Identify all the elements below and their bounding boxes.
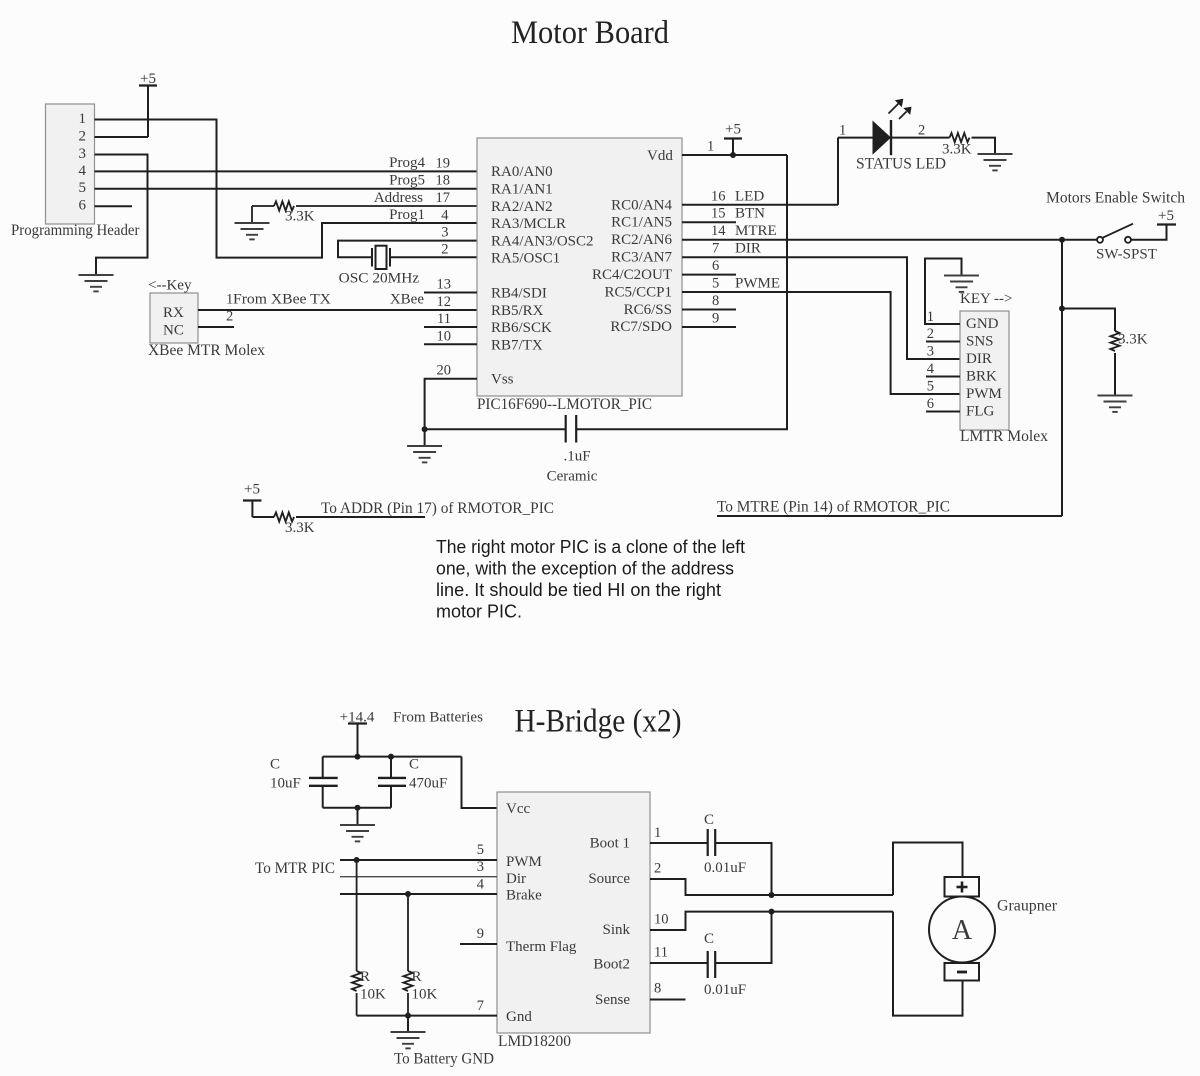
svg-text:1: 1	[707, 139, 714, 155]
wire top rail	[323, 756, 462, 758]
wire Vss to bypass cap and ground	[425, 379, 566, 430]
wire molex pin4 stub	[926, 376, 960, 378]
svg-text:<--Key: <--Key	[148, 278, 192, 294]
svg-text:Vcc: Vcc	[506, 801, 530, 817]
junction battery gnd node	[405, 1013, 411, 1019]
capacitor C 10uF	[270, 757, 338, 808]
svg-text:5: 5	[927, 379, 934, 395]
svg-text:To MTRE (Pin 14) of RMOTOR_PI: To MTRE (Pin 14) of RMOTOR_PIC	[717, 499, 950, 516]
IC U2 LMD18200	[497, 792, 650, 1050]
svg-text:Brake: Brake	[506, 888, 542, 904]
note text	[436, 537, 745, 622]
wire Boot2 to cap	[650, 962, 708, 964]
svg-text:6: 6	[79, 198, 87, 214]
svg-text:RB5/RX: RB5/RX	[491, 303, 544, 319]
wire header pin3 to ground	[95, 155, 148, 276]
ground (LMTR pin1)	[944, 276, 979, 292]
svg-text:Vss: Vss	[491, 372, 514, 388]
svg-text:11: 11	[654, 945, 668, 961]
svg-text:8: 8	[712, 293, 719, 309]
svg-text:RA3/MCLR: RA3/MCLR	[491, 216, 566, 232]
svg-text:PWME: PWME	[735, 276, 780, 292]
power +5 (ADDR pull-up)	[243, 482, 262, 518]
svg-text:470uF: 470uF	[409, 776, 447, 792]
resistor 3.3K (LED)	[942, 133, 972, 158]
svg-text:16: 16	[711, 188, 726, 204]
svg-text:1: 1	[79, 111, 87, 127]
svg-text:PWM: PWM	[966, 386, 1002, 402]
junction PWM pull node	[354, 857, 360, 863]
svg-text:C: C	[270, 757, 280, 773]
wire RB4/SDI stub	[424, 292, 477, 294]
svg-text:SNS: SNS	[966, 334, 994, 350]
power +5 (Vdd)	[724, 122, 742, 155]
svg-text:XBee: XBee	[390, 291, 424, 307]
power +5 (programming header)	[139, 71, 157, 137]
svg-text:RX: RX	[163, 305, 184, 321]
svg-text:+5: +5	[725, 122, 741, 138]
svg-text:R: R	[412, 969, 422, 985]
svg-text:Therm Flag: Therm Flag	[506, 939, 577, 955]
wire molex pin6 stub	[926, 411, 960, 413]
junction MTRE node	[1059, 237, 1065, 243]
crystal OSC 20MHz	[338, 241, 477, 287]
junction Brake pull node	[405, 891, 411, 897]
svg-text:0.01uF: 0.01uF	[704, 982, 746, 998]
svg-text:5: 5	[477, 842, 484, 858]
svg-text:3.3K: 3.3K	[285, 209, 315, 225]
svg-text:OSC 20MHz: OSC 20MHz	[339, 271, 420, 287]
svg-text:DIR: DIR	[735, 241, 761, 257]
svg-text:To MTR PIC: To MTR PIC	[255, 860, 335, 877]
svg-text:RC5/CCP1: RC5/CCP1	[604, 285, 672, 301]
wire header pin1 to RA3/MCLR (Prog1)	[95, 120, 478, 258]
wire to battery ground	[407, 1016, 409, 1032]
svg-text:+5: +5	[1158, 208, 1174, 224]
svg-text:5: 5	[79, 180, 87, 196]
wire Vdd to +5	[682, 154, 787, 156]
svg-text:Motors Enable Switch: Motors Enable Switch	[1046, 190, 1185, 207]
wire Brake input	[340, 893, 497, 895]
svg-text:LED: LED	[735, 188, 764, 204]
junction Source node	[769, 892, 775, 898]
svg-text:Vdd: Vdd	[647, 148, 673, 164]
wire RC4/C2OUT stub	[682, 274, 736, 276]
ground (address pull-down)	[235, 223, 270, 239]
svg-text:MTRE: MTRE	[735, 223, 777, 239]
svg-text:Dir: Dir	[506, 871, 526, 887]
svg-text:Motor Board: Motor Board	[511, 15, 669, 51]
svg-text:0.01uF: 0.01uF	[704, 860, 746, 876]
svg-text:motor PIC.: motor PIC.	[436, 602, 522, 622]
motor M1 Graupner	[929, 877, 1058, 981]
svg-text:RC4/C2OUT: RC4/C2OUT	[592, 267, 672, 283]
svg-text:NC: NC	[163, 323, 184, 339]
svg-text:10uF: 10uF	[270, 776, 301, 792]
wire Dir input	[340, 876, 497, 878]
svg-text:10K: 10K	[360, 987, 386, 1003]
capacitor C 470uF	[378, 757, 447, 808]
svg-text:2: 2	[79, 128, 87, 144]
svg-text:3: 3	[79, 146, 87, 162]
junction 470uF node	[388, 754, 394, 760]
svg-text:To Battery GND: To Battery GND	[394, 1051, 494, 1068]
svg-text:C: C	[704, 931, 714, 947]
svg-text:Boot2: Boot2	[593, 957, 630, 973]
wire header pin2 to +5	[95, 136, 149, 138]
svg-text:19: 19	[436, 155, 451, 171]
svg-text:STATUS LED: STATUS LED	[856, 155, 946, 172]
svg-text:Prog1: Prog1	[389, 207, 425, 223]
junction +14.4 node	[355, 754, 361, 760]
svg-text:8: 8	[654, 981, 661, 997]
wire cap to Source node	[715, 843, 771, 895]
svg-text:12: 12	[437, 294, 452, 310]
svg-text:4: 4	[927, 361, 935, 377]
svg-text:SW-SPST: SW-SPST	[1096, 247, 1157, 263]
switch SW-SPST	[1096, 224, 1157, 263]
svg-text:11: 11	[437, 311, 451, 327]
capacitor C 0.01uF (Boot2)	[704, 931, 746, 998]
svg-text:14: 14	[711, 223, 726, 239]
wire to ADDR of RMOTOR_PIC	[296, 516, 425, 518]
svg-text:7: 7	[712, 241, 719, 257]
ground (header pin3)	[79, 275, 114, 291]
svg-text:3: 3	[927, 344, 934, 360]
wire XBee pin2 stub	[198, 326, 234, 328]
wire molex pin1 GND to ground	[925, 259, 962, 325]
svg-text:9: 9	[712, 310, 719, 326]
svg-text:H-Bridge (x2): H-Bridge (x2)	[515, 704, 682, 740]
ground (Vss)	[407, 446, 442, 462]
svg-text:+5: +5	[244, 482, 260, 498]
wire MTRE to pull resistor	[1062, 309, 1115, 332]
svg-text:15: 15	[711, 206, 726, 222]
svg-text:3: 3	[477, 859, 484, 875]
svg-text:1: 1	[927, 309, 934, 325]
svg-text:3.3K: 3.3K	[1118, 332, 1148, 348]
svg-text:10: 10	[654, 912, 669, 928]
power +5 (switch)	[1157, 208, 1176, 225]
wire RC6/SS stub	[682, 309, 736, 311]
connector J1 Programming Header	[11, 104, 140, 239]
svg-text:line. It should be tied HI on: line. It should be tied HI on the right	[436, 580, 721, 600]
svg-text:3.3K: 3.3K	[285, 520, 315, 536]
LED D1 STATUS LED	[838, 99, 946, 173]
svg-text:RC3/AN7: RC3/AN7	[611, 250, 672, 266]
svg-text:3: 3	[441, 225, 448, 241]
svg-text:RC2/AN6: RC2/AN6	[611, 232, 672, 248]
svg-text:Programming Header: Programming Header	[11, 222, 140, 239]
resistor 3.3K (MTRE pull)	[1110, 331, 1147, 351]
svg-text:RA5/OSC1: RA5/OSC1	[491, 250, 560, 266]
svg-text:2: 2	[226, 308, 233, 324]
svg-text:RB4/SDI: RB4/SDI	[491, 286, 547, 302]
svg-text:RC1/AN5: RC1/AN5	[611, 215, 672, 231]
op IC U1 PIC16F690 LMOTOR_PIC	[477, 138, 682, 413]
ground (To Battery GND)	[391, 1032, 426, 1048]
wire Vss junction to ground	[424, 429, 426, 446]
svg-text:Ceramic: Ceramic	[547, 469, 598, 485]
svg-text:2: 2	[441, 241, 448, 257]
ground (filter caps)	[340, 825, 375, 841]
capacitor C 0.01uF (Boot1)	[704, 812, 746, 876]
svg-text:C: C	[409, 757, 419, 773]
svg-text:R: R	[360, 969, 370, 985]
svg-text:RB7/TX: RB7/TX	[491, 337, 543, 353]
svg-text:LMD18200: LMD18200	[498, 1033, 571, 1050]
svg-text:BRK: BRK	[966, 369, 997, 385]
connector LMTR Molex	[960, 291, 1048, 445]
resistor 3.3K (address pull-down)	[252, 201, 477, 224]
svg-text:.1uF: .1uF	[563, 449, 590, 465]
svg-text:one, with the exception of the: one, with the exception of the address	[436, 559, 734, 579]
junction MTRE 3.3K tap	[1059, 306, 1065, 312]
svg-text:1: 1	[839, 123, 846, 139]
wire resistor to ground	[972, 138, 996, 154]
ground (MTRE pull)	[1098, 396, 1133, 412]
wire PWM input	[340, 859, 497, 861]
svg-text:7: 7	[477, 998, 484, 1014]
wire resistor to ground	[1114, 353, 1116, 396]
junction filter ground node	[355, 805, 361, 811]
svg-text:13: 13	[437, 277, 452, 293]
svg-text:RA1/AN1: RA1/AN1	[491, 182, 553, 198]
wire motor - loop	[893, 912, 963, 1016]
wire RB6/SCK stub	[424, 326, 477, 328]
wire RC3/AN7 DIR to LMTR molex	[682, 257, 960, 359]
wire XBee pin1 RX to RB5/RX	[198, 309, 477, 311]
svg-text:A: A	[952, 915, 973, 946]
svg-text:18: 18	[436, 173, 451, 189]
wire header pin5 to RA1/AN1 (Prog5)	[95, 188, 478, 190]
svg-text:FLG: FLG	[966, 404, 995, 420]
svg-text:XBee MTR Molex: XBee MTR Molex	[148, 342, 265, 359]
wire RC0/AN4 to LED	[682, 204, 838, 206]
junction Vdd node	[730, 152, 736, 158]
wire header pin6 stub	[95, 205, 133, 207]
capacitor .1uF Ceramic	[547, 415, 598, 485]
wire cap to Sink node	[715, 912, 771, 963]
svg-text:PIC16F690--LMOTOR_PIC: PIC16F690--LMOTOR_PIC	[477, 396, 652, 413]
svg-text:Prog5: Prog5	[389, 172, 425, 188]
connector XBee MTR Molex	[148, 278, 265, 360]
svg-text:17: 17	[436, 190, 451, 206]
svg-text:9: 9	[477, 926, 484, 942]
svg-text:RC6/SS: RC6/SS	[624, 302, 672, 318]
svg-text:PWM: PWM	[506, 854, 542, 870]
svg-text:10: 10	[437, 328, 452, 344]
wire RC1/AN5 stub	[682, 221, 736, 223]
svg-text:The right motor PIC is a clone: The right motor PIC is a clone of the le…	[436, 537, 745, 557]
svg-text:4: 4	[79, 163, 87, 179]
wire RC5/CCP1 PWME to LMTR molex	[682, 292, 960, 394]
svg-text:2: 2	[918, 123, 925, 139]
svg-text:BTN: BTN	[735, 206, 765, 222]
svg-text:Gnd: Gnd	[506, 1009, 532, 1025]
svg-text:GND: GND	[966, 316, 999, 332]
svg-text:C: C	[704, 812, 714, 828]
wire RB7/TX stub	[424, 343, 477, 345]
wire Sink to motor	[650, 912, 893, 930]
svg-text:6: 6	[712, 258, 719, 274]
svg-text:5: 5	[712, 276, 719, 292]
svg-text:2: 2	[654, 861, 661, 877]
svg-text:DIR: DIR	[966, 351, 992, 367]
svg-text:From Batteries: From Batteries	[393, 710, 483, 726]
svg-text:Prog4: Prog4	[389, 155, 425, 171]
svg-text:Address: Address	[374, 190, 423, 206]
svg-text:KEY -->: KEY -->	[960, 291, 1012, 307]
wire rail to Vcc	[462, 757, 498, 808]
wire header pin4 to RA0/AN0 (Prog4)	[95, 170, 478, 172]
wire MTRE vertical rail	[1061, 240, 1063, 516]
wire Boot1 to cap	[650, 842, 708, 844]
svg-text:RB6/SCK: RB6/SCK	[491, 320, 552, 336]
wire Gnd line	[357, 1015, 497, 1017]
svg-text:To ADDR (Pin 17) of RMOTOR_PIC: To ADDR (Pin 17) of RMOTOR_PIC	[321, 500, 554, 517]
wire motor + loop	[893, 843, 963, 896]
wire RC2/AN6 MTRE to switch	[682, 239, 1097, 241]
wire address resistor to ground	[251, 206, 253, 223]
svg-text:3.3K: 3.3K	[942, 142, 972, 158]
svg-text:RA4/AN3/OSC2: RA4/AN3/OSC2	[491, 234, 594, 250]
wire Therm Flag stub	[460, 943, 497, 945]
junction Vss node	[422, 426, 428, 432]
svg-text:Source: Source	[588, 871, 630, 887]
resistor R 10K (Brake pull)	[403, 894, 437, 1016]
wire LED to resistor	[891, 137, 950, 139]
svg-text:Sense: Sense	[595, 992, 630, 1008]
wire RC7/SDO stub	[682, 326, 736, 328]
svg-text:RA0/AN0: RA0/AN0	[491, 164, 553, 180]
svg-text:6: 6	[927, 396, 934, 412]
svg-text:RA2/AN2: RA2/AN2	[491, 199, 553, 215]
resistor 3.3K (ADDR pull-up)	[252, 512, 314, 535]
resistor R 10K (PWM pull)	[352, 860, 386, 1016]
svg-text:Graupner: Graupner	[997, 898, 1058, 915]
wire Source to motor	[650, 879, 893, 895]
svg-text:10K: 10K	[412, 987, 438, 1003]
svg-text:Boot 1: Boot 1	[590, 836, 630, 852]
svg-text:RC7/SDO: RC7/SDO	[610, 319, 672, 335]
svg-text:4: 4	[441, 207, 449, 223]
svg-text:2: 2	[927, 326, 934, 342]
wire to filter ground	[357, 808, 359, 825]
svg-text:1: 1	[654, 825, 661, 841]
svg-text:From XBee TX: From XBee TX	[233, 291, 331, 307]
svg-text:Sink: Sink	[602, 922, 630, 938]
wire cap to Vdd rail	[576, 155, 787, 429]
wire molex pin2 stub	[926, 341, 960, 343]
wire switch to +5	[1131, 225, 1167, 240]
power +14.4 From Batteries	[340, 710, 484, 757]
wire bottom rail	[323, 807, 391, 809]
wire to MTRE of RMOTOR_PIC	[717, 515, 1062, 517]
wire Sense stub	[650, 999, 686, 1001]
svg-text:20: 20	[437, 362, 452, 378]
svg-text:RC0/AN4: RC0/AN4	[611, 197, 672, 213]
svg-text:4: 4	[477, 876, 485, 892]
junction Sink node	[769, 909, 775, 915]
ground (STATUS LED)	[978, 154, 1013, 170]
svg-text:LMTR Molex: LMTR Molex	[960, 428, 1048, 445]
